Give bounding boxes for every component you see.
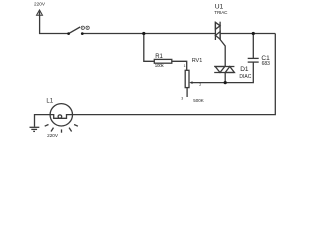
svg-text:3: 3 (181, 97, 183, 101)
svg-text:500K: 500K (193, 98, 204, 103)
svg-text:220V: 220V (47, 133, 59, 138)
svg-text:RV1: RV1 (192, 58, 203, 64)
svg-text:683: 683 (262, 61, 271, 67)
svg-text:220V: 220V (34, 2, 46, 7)
svg-text:2: 2 (199, 83, 201, 87)
svg-text:L1: L1 (46, 98, 53, 104)
svg-text:DIAC: DIAC (239, 74, 251, 80)
svg-text:R1: R1 (155, 54, 163, 60)
svg-text:1: 1 (184, 64, 186, 68)
svg-text:D1: D1 (240, 66, 249, 73)
svg-text:100k: 100k (155, 63, 165, 68)
svg-text:TRIAC: TRIAC (214, 10, 228, 15)
